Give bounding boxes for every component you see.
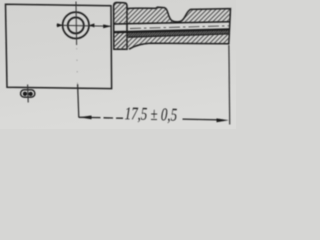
vertical centerline lower <box>78 84 79 118</box>
vertical centerline upper <box>75 2 78 46</box>
flange outline <box>114 3 127 50</box>
bore bottom line <box>114 29 230 32</box>
bore entry arrowhead at block edge <box>103 24 111 28</box>
bottom tab right dot <box>28 92 32 96</box>
bore top line <box>114 22 230 24</box>
block outline <box>6 4 112 88</box>
flange hatch lower <box>114 32 127 49</box>
bore centerline <box>130 26 229 29</box>
bottom tab pill <box>21 90 35 97</box>
hole outer circle <box>63 12 89 38</box>
paper background <box>0 0 236 129</box>
svg-text:17,5 ± 0,5: 17,5 ± 0,5 <box>124 104 177 125</box>
horizontal centerline <box>57 25 112 26</box>
vertical centerline middle (faint dashes) <box>76 48 79 84</box>
bottom tab left dot <box>23 92 27 96</box>
right arrowhead on circle <box>89 23 95 27</box>
dimension line right segment <box>183 118 220 121</box>
tube dark bore-bottom band (dense hatch) <box>127 29 231 37</box>
bore lower secondary line <box>128 34 230 37</box>
right extension line <box>228 45 231 125</box>
dimension line left segment <box>79 116 123 119</box>
tube upper wall hatch <box>127 7 231 24</box>
tube lower wall hatch <box>114 30 230 50</box>
flange hatch upper <box>114 3 127 24</box>
hole inner circle <box>68 17 84 33</box>
dimension right arrowhead <box>217 118 229 122</box>
left arrowhead on circle <box>57 23 63 27</box>
bottom tab centerline <box>27 85 30 103</box>
tube outline <box>127 7 231 49</box>
dimension left arrowhead <box>79 116 92 120</box>
